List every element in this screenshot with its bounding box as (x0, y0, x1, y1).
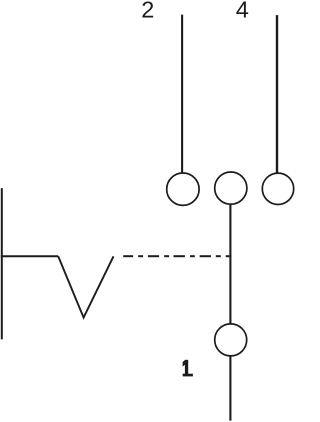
svg-text:2: 2 (141, 0, 154, 23)
contact circle pin 1 (215, 324, 247, 356)
contact circle pin 2 (167, 173, 199, 205)
svg-text:4: 4 (236, 0, 249, 23)
contact circle common top (215, 172, 247, 204)
wire pin 1 (229, 356, 231, 421)
actuator bar left (1, 188, 3, 339)
wire pin 2 (181, 15, 183, 174)
wire common vertical (229, 204, 231, 324)
mechanical linkage dash-dot line (123, 255, 231, 257)
pin label 1 (183, 360, 193, 377)
detent notch V (58, 256, 113, 317)
wire pin 4 (276, 15, 278, 173)
contact circle pin 4 (262, 173, 293, 204)
actuator link horizontal (1, 255, 58, 257)
